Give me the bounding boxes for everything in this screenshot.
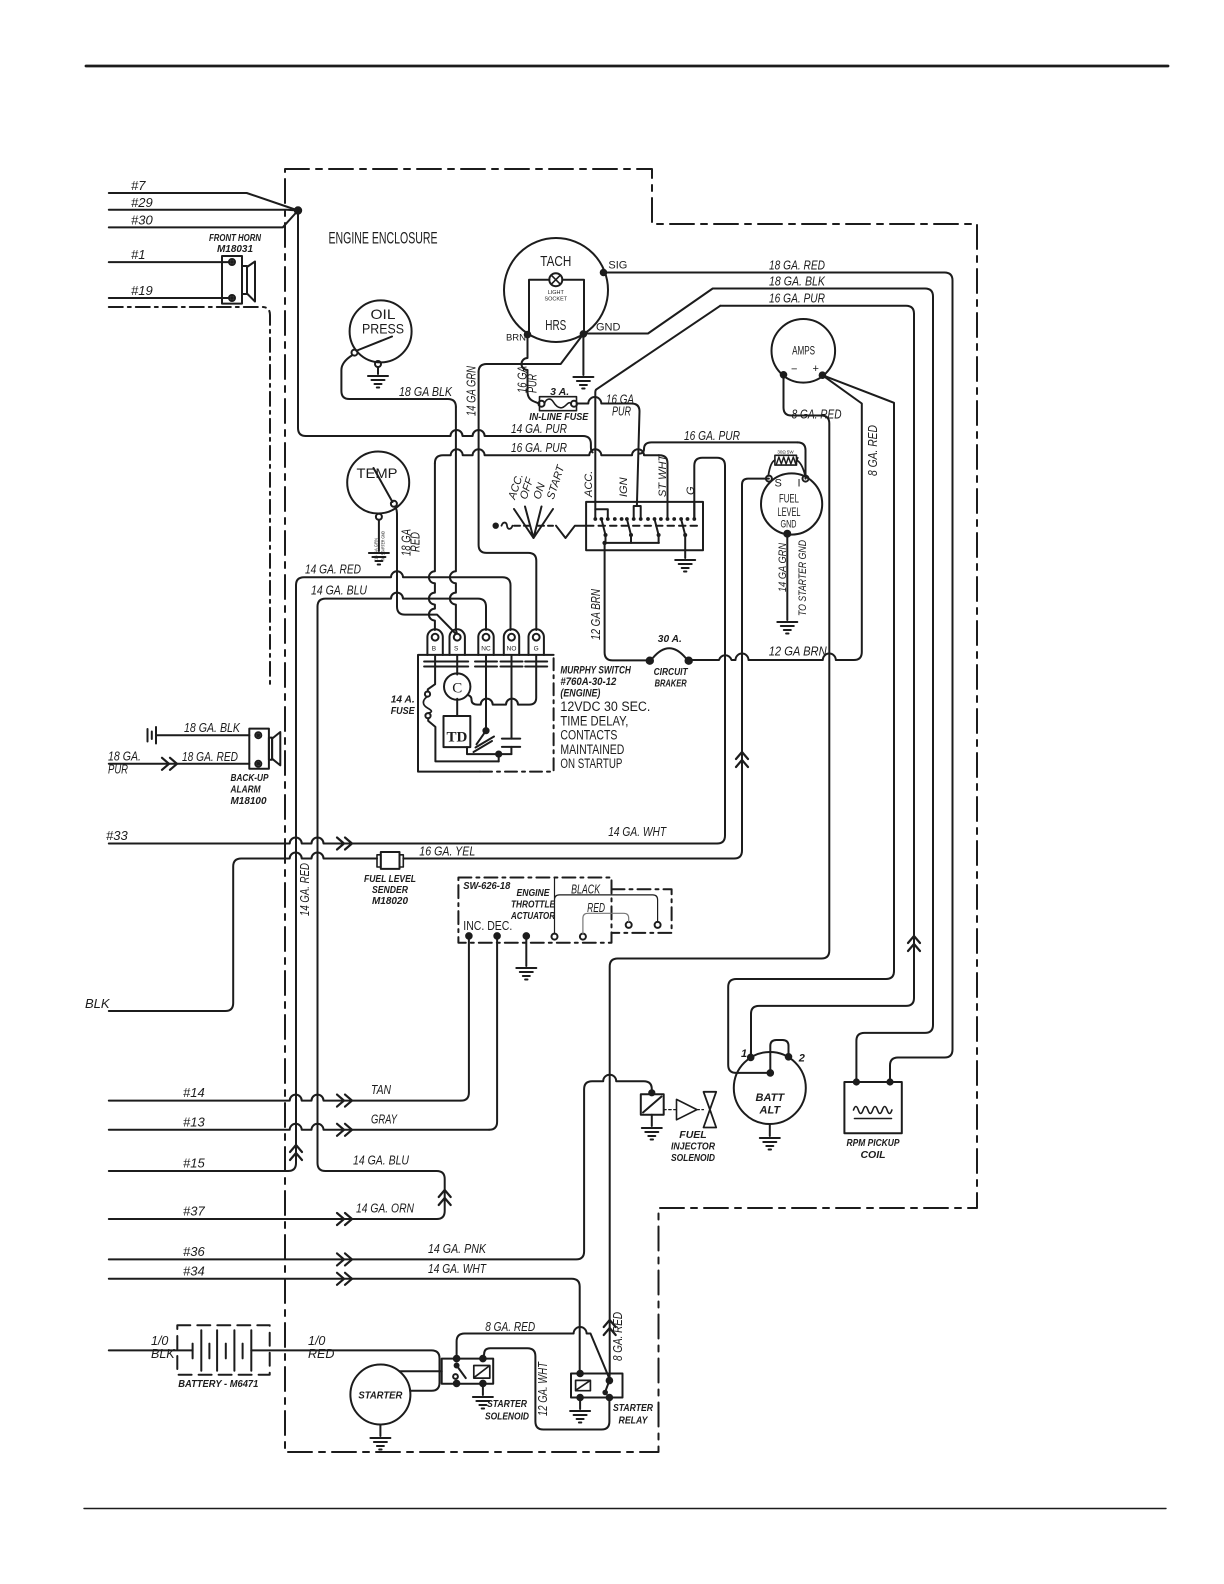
svg-text:IGN: IGN [618, 477, 630, 497]
svg-text:BACK-UP: BACK-UP [231, 772, 270, 784]
svg-text:PUR: PUR [612, 404, 631, 419]
svg-text:FUEL: FUEL [779, 492, 799, 506]
svg-text:TAN: TAN [371, 1082, 391, 1097]
svg-text:#760A-30-12: #760A-30-12 [560, 676, 616, 688]
svg-text:M18020: M18020 [372, 895, 408, 907]
svg-text:ST WHT: ST WHT [657, 454, 669, 497]
svg-text:COIL: COIL [860, 1149, 885, 1161]
svg-text:B: B [432, 646, 436, 653]
svg-text:G: G [534, 646, 539, 653]
svg-text:18 GA. RED: 18 GA. RED [182, 749, 238, 764]
svg-text:ENGINE ENCLOSURE: ENGINE ENCLOSURE [329, 229, 438, 248]
svg-text:FUEL: FUEL [679, 1129, 706, 1141]
svg-text:12 GA. WHT: 12 GA. WHT [536, 1361, 550, 1416]
svg-text:16 GA. YEL: 16 GA. YEL [419, 844, 475, 859]
svg-text:STARTER: STARTER [358, 1391, 403, 1402]
svg-text:8 GA. RED: 8 GA. RED [792, 407, 842, 422]
svg-text:ALT: ALT [759, 1105, 782, 1117]
svg-text:AMPS: AMPS [792, 344, 815, 358]
svg-text:16 GA. PUR: 16 GA. PUR [769, 291, 825, 306]
svg-text:8 GA. RED: 8 GA. RED [865, 425, 880, 476]
svg-text:16 GA. PUR: 16 GA. PUR [684, 428, 740, 443]
svg-text:TEMP: TEMP [357, 465, 398, 481]
svg-text:BRAKER: BRAKER [655, 678, 687, 690]
svg-text:8 GA. RED: 8 GA. RED [611, 1312, 625, 1361]
svg-text:HRS: HRS [545, 317, 566, 334]
svg-text:−: − [791, 364, 797, 376]
svg-text:ACTUATOR: ACTUATOR [510, 910, 555, 922]
svg-text:C: C [452, 681, 462, 697]
svg-text:TO STARTER GND: TO STARTER GND [381, 531, 387, 561]
svg-text:14 GA GRN: 14 GA GRN [777, 543, 789, 592]
svg-text:30 A.: 30 A. [658, 633, 682, 645]
svg-text:SOLENOID: SOLENOID [485, 1411, 529, 1423]
svg-text:BLK: BLK [85, 996, 111, 1011]
svg-text:TO STARTER GND: TO STARTER GND [797, 540, 809, 616]
svg-text:14 GA GRN: 14 GA GRN [465, 365, 479, 416]
svg-text:ALARM: ALARM [230, 784, 261, 796]
svg-text:INJECTOR: INJECTOR [671, 1141, 715, 1153]
svg-text:M18100: M18100 [231, 795, 267, 807]
svg-text:NO: NO [507, 646, 517, 653]
svg-text:#7: #7 [131, 178, 146, 193]
svg-text:LEVEL: LEVEL [778, 505, 801, 519]
svg-text:RED: RED [409, 532, 423, 552]
svg-text:18 GA. BLK: 18 GA. BLK [184, 720, 241, 735]
svg-text:BRN: BRN [506, 333, 526, 344]
svg-text:ENGINE: ENGINE [517, 887, 551, 899]
svg-text:#15: #15 [183, 1156, 205, 1171]
svg-text:30Ω 5W: 30Ω 5W [777, 450, 794, 455]
svg-text:ACC.: ACC. [583, 471, 595, 498]
svg-text:RELAY: RELAY [619, 1415, 649, 1427]
svg-text:RPM PICKUP: RPM PICKUP [847, 1137, 901, 1149]
svg-text:#33: #33 [106, 828, 128, 843]
svg-text:CONTACTS: CONTACTS [560, 728, 617, 743]
svg-text:8 GA. RED: 8 GA. RED [485, 1319, 535, 1334]
svg-text:PUR: PUR [108, 762, 128, 777]
svg-text:GND: GND [596, 322, 621, 334]
svg-text:THROTTLE: THROTTLE [511, 899, 556, 911]
svg-text:12VDC 30 SEC.: 12VDC 30 SEC. [560, 699, 650, 714]
svg-text:14 GA. PUR: 14 GA. PUR [511, 421, 567, 436]
svg-text:BATTERY - M6471: BATTERY - M6471 [178, 1378, 258, 1390]
svg-text:1: 1 [741, 1048, 747, 1060]
svg-text:GND: GND [781, 519, 797, 531]
svg-text:14 GA. RED: 14 GA. RED [305, 562, 361, 577]
svg-text:16 GA. PUR: 16 GA. PUR [511, 440, 567, 455]
svg-text:TD: TD [446, 730, 467, 746]
svg-text:S: S [775, 478, 782, 490]
svg-text:#30: #30 [131, 213, 153, 228]
svg-text:14 GA. BLU: 14 GA. BLU [353, 1153, 409, 1168]
svg-text:BLK: BLK [151, 1347, 175, 1361]
svg-text:14 GA. WHT: 14 GA. WHT [428, 1261, 487, 1276]
svg-text:SOLENOID: SOLENOID [671, 1152, 715, 1164]
svg-text:SOCKET: SOCKET [544, 297, 567, 303]
svg-text:14 GA. WHT: 14 GA. WHT [608, 824, 667, 839]
svg-text:18 GA BLK: 18 GA BLK [399, 384, 453, 399]
svg-text:G: G [685, 486, 697, 495]
svg-text:PRESS: PRESS [362, 321, 404, 337]
svg-text:#37: #37 [183, 1204, 205, 1219]
svg-text:PUR: PUR [526, 374, 540, 393]
svg-text:#14: #14 [183, 1085, 205, 1100]
svg-text:MURPHY SWITCH: MURPHY SWITCH [560, 665, 631, 677]
svg-text:3 A.: 3 A. [550, 386, 569, 398]
svg-text:BLACK: BLACK [571, 883, 600, 897]
svg-text:TACH: TACH [540, 253, 571, 270]
svg-text:STARTER: STARTER [613, 1402, 653, 1414]
svg-text:TIME DELAY,: TIME DELAY, [560, 713, 628, 728]
svg-text:ON STARTUP: ON STARTUP [560, 756, 622, 771]
svg-text:(ENGINE): (ENGINE) [560, 688, 600, 700]
svg-text:M18031: M18031 [217, 243, 253, 255]
svg-text:2: 2 [798, 1053, 805, 1065]
svg-text:RED: RED [587, 901, 605, 915]
svg-text:14 GA. BLU: 14 GA. BLU [311, 583, 367, 598]
svg-text:I: I [798, 478, 801, 490]
svg-text:14 GA. ORN: 14 GA. ORN [356, 1201, 414, 1216]
svg-text:LIGHT: LIGHT [548, 290, 565, 296]
svg-text:STARTER: STARTER [487, 1398, 527, 1410]
svg-text:12 GA BRN: 12 GA BRN [589, 588, 603, 640]
svg-text:1/0: 1/0 [151, 1334, 168, 1348]
svg-text:14 GA. RED: 14 GA. RED [298, 863, 312, 916]
svg-text:#19: #19 [131, 283, 153, 298]
svg-text:14 GA GRN: 14 GA GRN [374, 538, 380, 560]
svg-text:CIRCUIT: CIRCUIT [654, 666, 689, 678]
svg-text:#1: #1 [131, 247, 145, 262]
svg-text:GRAY: GRAY [371, 1112, 398, 1127]
svg-text:BATT: BATT [756, 1092, 786, 1104]
svg-text:12 GA BRN: 12 GA BRN [769, 644, 828, 659]
svg-text:#13: #13 [183, 1115, 205, 1130]
svg-text:RED: RED [308, 1347, 334, 1361]
svg-text:SIG: SIG [608, 260, 627, 272]
svg-text:NC: NC [481, 646, 491, 653]
svg-text:S: S [454, 646, 459, 653]
svg-text:#36: #36 [183, 1244, 205, 1259]
svg-text:18 GA. RED: 18 GA. RED [769, 258, 825, 273]
svg-text:INC. DEC.: INC. DEC. [463, 919, 512, 933]
svg-text:14 GA. PNK: 14 GA. PNK [428, 1241, 487, 1256]
svg-text:18 GA. BLK: 18 GA. BLK [769, 274, 826, 289]
svg-text:#34: #34 [183, 1264, 205, 1279]
svg-text:MAINTAINED: MAINTAINED [560, 742, 624, 757]
svg-text:1/0: 1/0 [308, 1334, 325, 1348]
svg-text:SW-626-18: SW-626-18 [463, 880, 510, 892]
svg-text:14 A.: 14 A. [391, 694, 415, 706]
svg-text:FUSE: FUSE [391, 705, 416, 717]
svg-text:+: + [813, 363, 819, 375]
svg-text:#29: #29 [131, 195, 153, 210]
